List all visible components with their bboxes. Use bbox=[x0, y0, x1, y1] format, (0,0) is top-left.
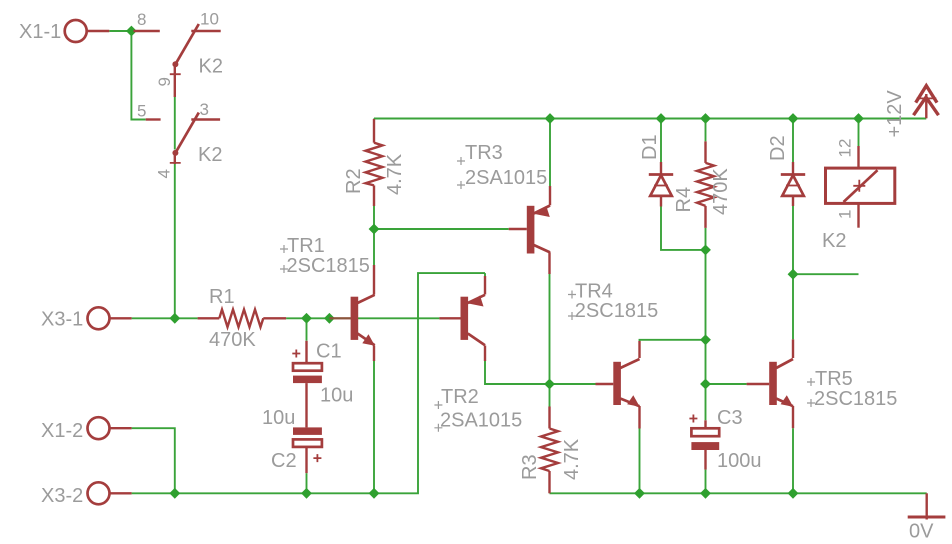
svg-text:R1: R1 bbox=[209, 286, 235, 308]
svg-text:X1-1: X1-1 bbox=[19, 21, 61, 43]
svg-text:X3-1: X3-1 bbox=[41, 309, 83, 331]
svg-text:4.7K: 4.7K bbox=[561, 438, 583, 480]
svg-text:TR2: TR2 bbox=[441, 386, 479, 408]
svg-text:K2: K2 bbox=[198, 144, 222, 166]
svg-text:10: 10 bbox=[200, 10, 219, 29]
svg-text:2SC1815: 2SC1815 bbox=[814, 388, 897, 410]
svg-text:2SA1015: 2SA1015 bbox=[440, 410, 522, 432]
svg-text:2SC1815: 2SC1815 bbox=[287, 255, 370, 277]
svg-text:C3: C3 bbox=[717, 407, 743, 429]
svg-text:TR1: TR1 bbox=[287, 235, 325, 257]
svg-text:2SC1815: 2SC1815 bbox=[575, 300, 658, 322]
svg-text:5: 5 bbox=[137, 102, 146, 121]
svg-text:10u: 10u bbox=[262, 407, 295, 429]
svg-text:470K: 470K bbox=[209, 329, 256, 351]
svg-text:2SA1015: 2SA1015 bbox=[465, 167, 547, 189]
svg-text:C1: C1 bbox=[316, 341, 342, 363]
svg-text:1: 1 bbox=[836, 210, 855, 219]
svg-text:100u: 100u bbox=[717, 450, 762, 472]
svg-text:K2: K2 bbox=[199, 56, 223, 78]
svg-text:+12V: +12V bbox=[884, 90, 906, 138]
svg-text:D1: D1 bbox=[639, 134, 661, 160]
svg-text:4.7K: 4.7K bbox=[384, 153, 406, 195]
svg-text:K2: K2 bbox=[822, 230, 846, 252]
svg-text:10u: 10u bbox=[320, 385, 353, 407]
svg-text:3: 3 bbox=[200, 100, 209, 119]
svg-text:D2: D2 bbox=[767, 135, 789, 161]
svg-text:4: 4 bbox=[155, 169, 174, 178]
svg-text:X3-2: X3-2 bbox=[41, 485, 83, 507]
svg-text:TR5: TR5 bbox=[815, 368, 853, 390]
svg-text:0V: 0V bbox=[909, 521, 934, 543]
svg-text:R3: R3 bbox=[519, 454, 541, 480]
svg-text:R2: R2 bbox=[343, 168, 365, 194]
svg-text:C2: C2 bbox=[271, 450, 297, 472]
svg-text:470K: 470K bbox=[710, 168, 732, 215]
svg-text:12: 12 bbox=[836, 139, 855, 158]
svg-text:R4: R4 bbox=[673, 187, 695, 213]
svg-text:TR3: TR3 bbox=[465, 142, 503, 164]
svg-text:X1-2: X1-2 bbox=[41, 420, 83, 442]
svg-text:8: 8 bbox=[137, 10, 146, 29]
svg-text:9: 9 bbox=[155, 77, 174, 86]
